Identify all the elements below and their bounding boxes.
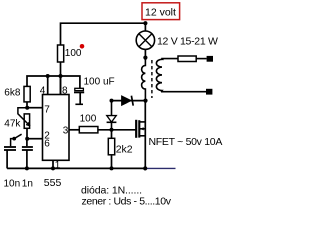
lamp L1 xyxy=(144,23,146,31)
terminal bottom xyxy=(206,89,212,95)
wire pin 4 xyxy=(47,76,49,95)
potentiometer P1 47k xyxy=(24,114,29,128)
resistor R2 6k8 xyxy=(24,86,30,102)
node 2k2 ground junction xyxy=(110,166,114,170)
resistor R5 output xyxy=(178,56,196,62)
node zener top junction xyxy=(110,99,114,103)
svg-text:NFET ~ 50v 10A: NFET ~ 50v 10A xyxy=(149,136,223,148)
svg-text:10n: 10n xyxy=(4,178,21,189)
svg-text:47k: 47k xyxy=(4,118,21,129)
zener diode Z1 xyxy=(111,123,113,130)
wire top rail xyxy=(61,23,146,45)
transformer T1 primary winding xyxy=(142,58,146,101)
svg-text:3: 3 xyxy=(63,126,69,137)
svg-text:100: 100 xyxy=(80,114,97,125)
node lamp bottom junction xyxy=(143,56,147,60)
resistor R4 2k2 xyxy=(111,130,113,139)
wire zener to drain xyxy=(112,100,146,102)
node drain junction xyxy=(143,99,147,103)
svg-text:6k8: 6k8 xyxy=(4,87,21,98)
node pin1 ground junction xyxy=(51,166,55,170)
capacitor C2 1n xyxy=(22,146,33,148)
wire 1n top xyxy=(26,139,28,146)
wire resistor to Vcc rail xyxy=(60,62,62,95)
wire pin 8 xyxy=(60,76,62,95)
transformer T1 core xyxy=(151,60,153,98)
svg-text:zener : Uds - 5....10v: zener : Uds - 5....10v xyxy=(82,195,172,207)
wire Vcc rail xyxy=(27,76,80,88)
wire pin 3 xyxy=(69,129,79,131)
node lamp top junction xyxy=(143,21,147,25)
wire drain/source lead xyxy=(144,101,146,169)
node source ground junction xyxy=(143,166,147,170)
wire secondary top xyxy=(161,58,178,60)
transformer T1 secondary winding xyxy=(156,59,162,92)
node pin8 junction xyxy=(59,74,63,78)
svg-text:12 volt: 12 volt xyxy=(145,6,176,18)
node pin2/6 junction xyxy=(25,137,29,141)
capacitor C1 10n xyxy=(4,146,16,148)
svg-text:1n: 1n xyxy=(22,178,33,189)
wire gate xyxy=(98,129,136,131)
node 6k8/pin7 junction xyxy=(25,106,29,110)
svg-text:4: 4 xyxy=(40,86,46,97)
resistor R1 100 xyxy=(58,45,64,62)
wire to terminal xyxy=(196,58,206,60)
svg-text:8: 8 xyxy=(62,86,68,97)
svg-text:100 uF: 100 uF xyxy=(84,76,115,87)
svg-text:2k2: 2k2 xyxy=(116,144,133,156)
node pin4 junction xyxy=(46,74,50,78)
wire ground rail right (blue) xyxy=(145,167,175,169)
label box 12 volt xyxy=(142,3,180,20)
node 1n ground junction xyxy=(25,166,29,170)
svg-text:100: 100 xyxy=(65,48,82,59)
svg-text:6: 6 xyxy=(44,139,50,150)
wire secondary bottom xyxy=(161,91,206,93)
wire pin 7 xyxy=(27,107,42,109)
wiper arm of 47k xyxy=(18,108,30,126)
wire pot to node xyxy=(26,128,28,138)
capacitor C3 100uF xyxy=(75,88,84,90)
svg-text:555: 555 xyxy=(44,177,62,189)
node gate junction xyxy=(110,128,114,132)
op-amp U1 555 timer body xyxy=(43,95,70,161)
red star marker xyxy=(80,44,85,49)
transistor Q1 NFET xyxy=(135,120,137,138)
wire 6k8 to node xyxy=(26,102,28,108)
terminal top xyxy=(207,56,213,62)
wire ground rail xyxy=(7,167,145,169)
wire pin 2/6 xyxy=(27,138,42,140)
resistor R3 100 xyxy=(79,127,98,133)
svg-text:7: 7 xyxy=(44,104,50,115)
switch S1 xyxy=(14,134,21,138)
svg-text:1: 1 xyxy=(55,160,61,171)
svg-text:12 V 15-21 W: 12 V 15-21 W xyxy=(157,35,218,47)
diode D1 xyxy=(122,96,132,105)
wire pin 1 xyxy=(52,160,54,168)
